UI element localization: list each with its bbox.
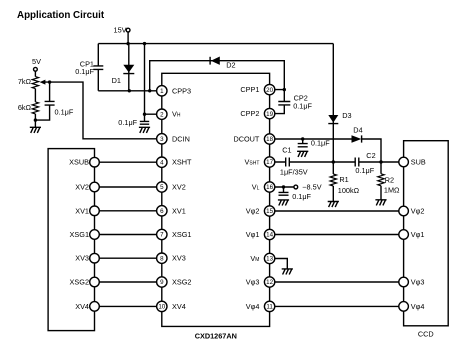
svg-text:7kΩ: 7kΩ [18, 77, 32, 86]
svg-text:DCOUT: DCOUT [233, 135, 259, 144]
svg-text:Vφ2: Vφ2 [246, 207, 260, 216]
svg-text:−8.5V: −8.5V [302, 182, 321, 191]
svg-text:R1: R1 [339, 175, 348, 184]
svg-text:0.1μF: 0.1μF [75, 67, 94, 76]
svg-text:D2: D2 [226, 61, 235, 70]
svg-text:18: 18 [266, 136, 273, 143]
svg-text:CCD: CCD [418, 329, 434, 338]
svg-text:SUB: SUB [411, 158, 426, 167]
svg-text:XSG1: XSG1 [70, 230, 89, 239]
svg-text:2: 2 [160, 111, 164, 118]
svg-text:15V: 15V [114, 26, 127, 35]
svg-text:Vφ3: Vφ3 [246, 278, 260, 287]
svg-text:Vφ3: Vφ3 [411, 278, 425, 287]
svg-text:XSUB: XSUB [69, 158, 89, 167]
svg-text:XSG2: XSG2 [70, 278, 89, 287]
svg-text:XV3: XV3 [172, 254, 186, 263]
svg-text:C2: C2 [366, 151, 375, 160]
svg-text:XSHT: XSHT [172, 158, 192, 167]
svg-text:D4: D4 [353, 126, 362, 135]
svg-text:16: 16 [266, 184, 273, 191]
svg-text:8: 8 [160, 255, 164, 262]
svg-text:5: 5 [160, 184, 164, 191]
svg-text:11: 11 [266, 304, 273, 311]
svg-text:XV2: XV2 [172, 183, 186, 192]
svg-text:CPP3: CPP3 [172, 86, 191, 95]
svg-text:20: 20 [266, 87, 273, 94]
svg-text:5V: 5V [32, 57, 41, 66]
svg-text:1μF/35V: 1μF/35V [280, 168, 308, 177]
svg-text:R2: R2 [385, 176, 394, 185]
svg-text:100kΩ: 100kΩ [338, 186, 360, 195]
svg-text:CPP1: CPP1 [240, 85, 259, 94]
svg-text:3: 3 [160, 136, 164, 143]
svg-text:14: 14 [266, 232, 273, 239]
svg-text:6: 6 [160, 208, 164, 215]
svg-text:Vφ4: Vφ4 [411, 302, 425, 311]
svg-text:XSG2: XSG2 [172, 278, 191, 287]
svg-text:4: 4 [160, 159, 164, 166]
svg-text:CPP2: CPP2 [240, 109, 259, 118]
svg-text:Vφ1: Vφ1 [411, 230, 425, 239]
svg-text:C1: C1 [282, 146, 291, 155]
svg-text:XV1: XV1 [172, 206, 186, 215]
svg-text:0.1μF: 0.1μF [55, 108, 74, 117]
svg-text:0.1μF: 0.1μF [292, 192, 311, 201]
svg-text:7: 7 [160, 232, 164, 239]
svg-text:17: 17 [266, 159, 273, 166]
svg-text:0.1μF: 0.1μF [293, 102, 312, 111]
svg-text:0.1μF: 0.1μF [311, 139, 330, 148]
svg-text:12: 12 [266, 279, 273, 286]
svg-text:Vφ2: Vφ2 [411, 207, 425, 216]
svg-text:D1: D1 [112, 76, 121, 85]
svg-text:10: 10 [158, 304, 165, 311]
svg-text:DCIN: DCIN [172, 134, 190, 143]
svg-text:9: 9 [160, 279, 164, 286]
svg-text:19: 19 [266, 111, 273, 118]
svg-text:XSG1: XSG1 [172, 230, 191, 239]
svg-text:0.1μF: 0.1μF [118, 118, 137, 127]
svg-text:XV4: XV4 [172, 302, 186, 311]
svg-text:XV2: XV2 [75, 183, 89, 192]
svg-text:6kΩ: 6kΩ [18, 103, 32, 112]
svg-text:XV1: XV1 [75, 206, 89, 215]
svg-text:XV4: XV4 [75, 302, 89, 311]
svg-text:13: 13 [266, 256, 273, 263]
svg-text:0.1μF: 0.1μF [355, 166, 374, 175]
svg-text:CXD1267AN: CXD1267AN [195, 331, 237, 340]
svg-text:1MΩ: 1MΩ [384, 186, 400, 195]
svg-text:15: 15 [266, 208, 273, 215]
svg-text:Vφ4: Vφ4 [246, 302, 260, 311]
svg-text:Vφ1: Vφ1 [246, 230, 260, 239]
svg-text:D3: D3 [342, 111, 351, 120]
svg-text:XV3: XV3 [75, 254, 89, 263]
svg-text:Application Circuit: Application Circuit [17, 10, 105, 21]
svg-text:1: 1 [160, 88, 164, 95]
